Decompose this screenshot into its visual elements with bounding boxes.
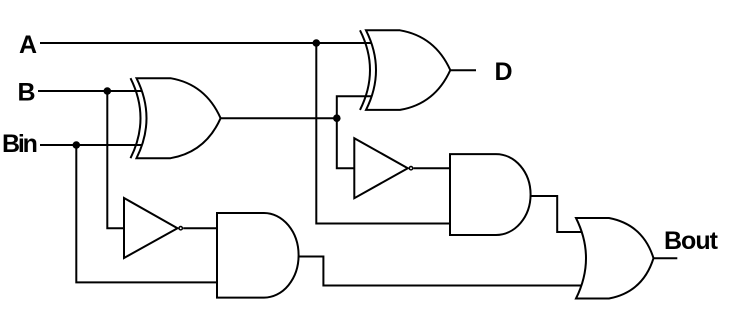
node on XOR1 output — [333, 114, 341, 122]
node on wire A — [313, 39, 321, 47]
wire node down to inverter U4 input — [337, 118, 355, 168]
node on wire B — [104, 87, 112, 95]
wire inverter U3 output to AND1 upper input — [183, 227, 217, 229]
wire inverter U4 output to AND2 upper input — [414, 167, 451, 169]
wire A branch down to AND2 lower input — [316, 43, 450, 224]
inverter U3 (NOT B) — [124, 198, 182, 258]
wire OR output to Bout — [654, 257, 678, 259]
wire Bin branch down to AND1 lower input — [76, 145, 217, 282]
wire node up to XOR2 lower input — [337, 96, 371, 118]
and-gate U6 (AND2) — [450, 154, 531, 235]
wire AND2 output to OR top input — [530, 196, 581, 232]
wire input B to XOR1 top input — [38, 90, 143, 92]
svg-text:B: B — [18, 79, 35, 107]
wire input A to XOR2 top input — [40, 42, 371, 44]
wire XOR1 output — [221, 117, 337, 119]
svg-text:A: A — [19, 31, 37, 59]
wire AND1 output to OR lower input — [298, 257, 582, 286]
wire input Bin to XOR1 bottom input — [40, 144, 143, 146]
or-gate U7 (Bout) — [576, 218, 654, 299]
wire B branch down to inverter U3 input — [107, 91, 124, 228]
svg-text:Bin: Bin — [2, 130, 37, 158]
svg-text:D: D — [495, 58, 512, 86]
xor-gate U1 (B xor Bin) — [131, 78, 221, 158]
inverter U4 (NOT XOR1) — [354, 138, 412, 198]
node on wire Bin — [73, 141, 81, 149]
svg-text:Bout: Bout — [664, 227, 719, 255]
wire XOR2 output to D — [450, 69, 476, 71]
xor-gate U2 output D — [360, 30, 450, 110]
and-gate U5 (AND1) — [217, 213, 299, 298]
